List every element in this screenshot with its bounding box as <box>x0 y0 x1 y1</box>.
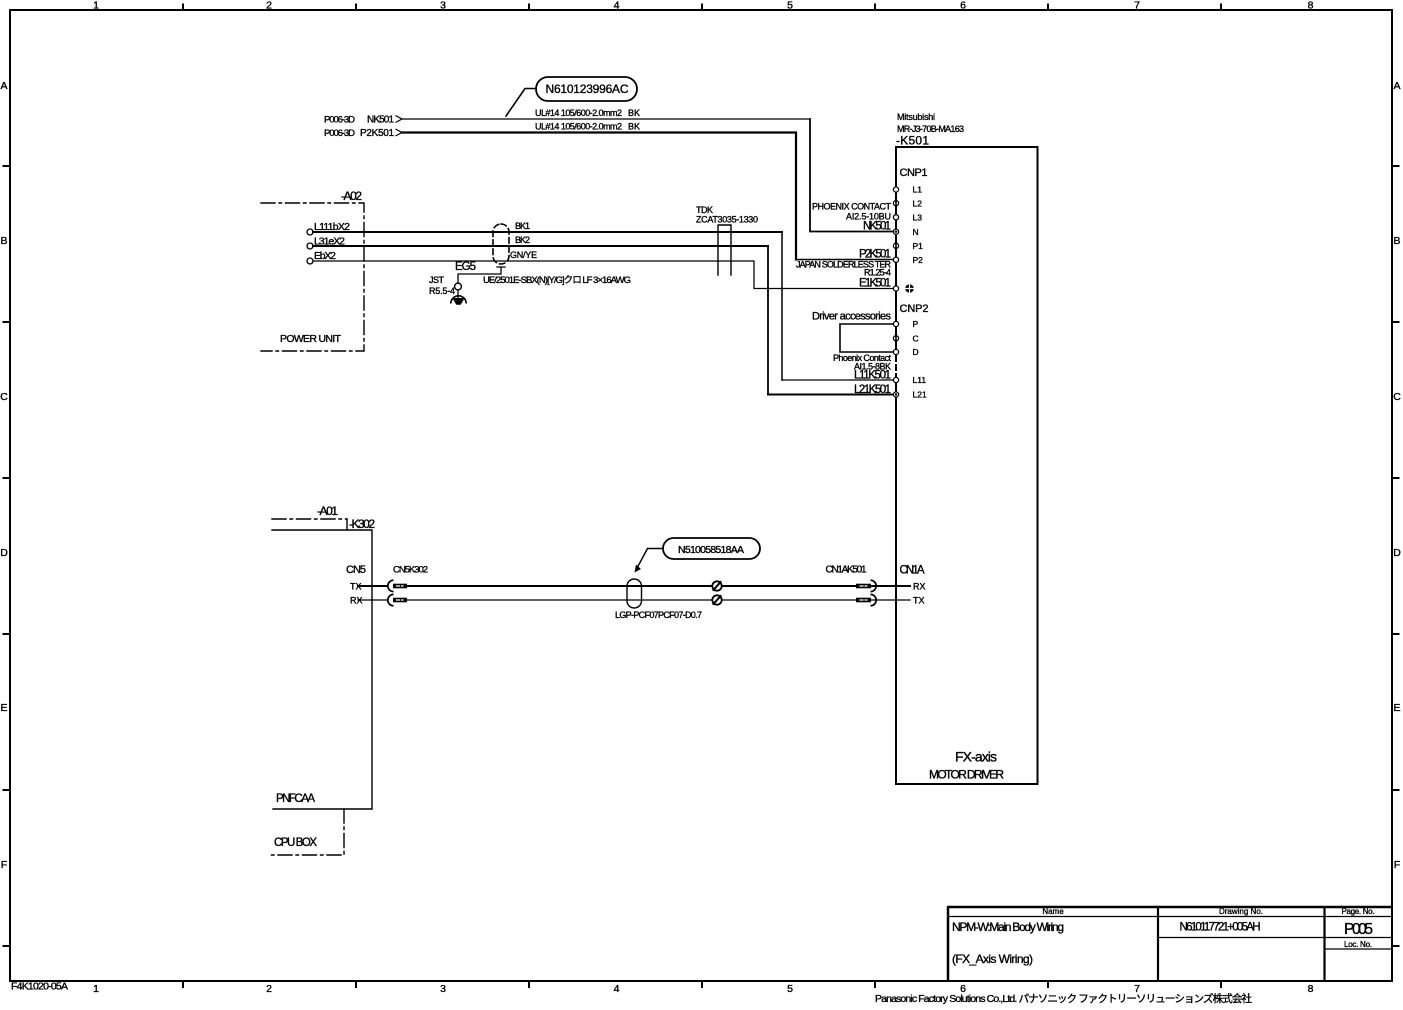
svg-text:8: 8 <box>1308 0 1314 12</box>
svg-text:N610117721+005AH: N610117721+005AH <box>1180 922 1261 934</box>
svg-text:EbX2: EbX2 <box>314 250 336 262</box>
svg-text:L11: L11 <box>913 375 927 385</box>
svg-text:P2: P2 <box>913 255 924 265</box>
svg-text:BK2: BK2 <box>515 235 530 245</box>
svg-text:Mitsubishi: Mitsubishi <box>897 112 935 122</box>
svg-text:3: 3 <box>440 983 446 995</box>
svg-text:L21K501: L21K501 <box>854 384 891 396</box>
svg-text:2: 2 <box>266 983 272 995</box>
svg-text:N610123996AC: N610123996AC <box>546 82 629 96</box>
cable capsule LGP <box>627 579 642 608</box>
svg-text:BK: BK <box>628 108 640 118</box>
svg-text:NPM-W:Main Body Wiring: NPM-W:Main Body Wiring <box>952 920 1064 934</box>
connector CN5K302 TX contact <box>388 580 394 591</box>
svg-text:ZCAT3035-1330: ZCAT3035-1330 <box>696 215 758 225</box>
svg-text:Panasonic Factory Solutions Co: Panasonic Factory Solutions Co.,Ltd. パナソ… <box>875 992 1253 1005</box>
svg-text:Drawing No.: Drawing No. <box>1219 907 1263 916</box>
svg-text:L1: L1 <box>913 185 923 195</box>
svg-text:C: C <box>913 334 919 344</box>
svg-text:B: B <box>0 235 7 247</box>
pin L1 <box>893 187 898 192</box>
svg-text:MOTOR DRIVER: MOTOR DRIVER <box>929 768 1004 782</box>
wire GN/YE EbX2 to E1K501 <box>313 261 894 289</box>
pin P2 <box>893 257 898 262</box>
svg-text:-A01: -A01 <box>317 504 338 518</box>
PNFCAA K302 outline <box>272 530 372 809</box>
svg-text:6: 6 <box>960 0 966 12</box>
svg-text:L2: L2 <box>913 198 923 208</box>
pin L11 <box>893 377 898 382</box>
svg-text:8: 8 <box>1308 983 1314 995</box>
svg-text:FX-axis: FX-axis <box>955 749 997 765</box>
svg-text:N510058518AA: N510058518AA <box>678 544 744 556</box>
svg-text:P006-3D: P006-3D <box>324 115 355 126</box>
callout N510058518AA <box>635 538 761 573</box>
svg-text:CNP2: CNP2 <box>900 303 929 315</box>
connector CN1AK501 TX contact <box>856 598 871 603</box>
protective earth symbol at E1 <box>905 284 914 293</box>
connector CN5K302 RX contact <box>388 594 394 605</box>
arrow NK501 <box>396 116 402 122</box>
svg-text:EG5: EG5 <box>455 261 476 273</box>
dashed segment D to L11 <box>895 356 897 377</box>
power unit boundary A02 (dash-dot) <box>261 203 364 351</box>
svg-text:UL#14 105/600-2.0mm2: UL#14 105/600-2.0mm2 <box>535 122 622 132</box>
svg-text:-K501: -K501 <box>896 134 929 148</box>
JST terminal circle <box>455 283 462 290</box>
svg-text:RX: RX <box>913 582 926 592</box>
svg-text:(FX_Axis Wiring): (FX_Axis Wiring) <box>952 952 1033 966</box>
svg-text:POWER UNIT: POWER UNIT <box>280 333 342 345</box>
svg-text:Page. No.: Page. No. <box>1342 907 1375 916</box>
wire NK501 top <box>402 118 810 120</box>
svg-text:MR-J3-70B-MA163: MR-J3-70B-MA163 <box>897 124 964 134</box>
svg-text:GN/YE: GN/YE <box>510 250 537 260</box>
shield drain Y <box>458 267 505 283</box>
svg-text:D: D <box>1393 547 1401 559</box>
svg-text:P: P <box>913 319 919 329</box>
pin N <box>893 229 898 234</box>
svg-text:1: 1 <box>93 983 99 995</box>
svg-text:P005: P005 <box>1344 921 1373 938</box>
terminal L31eX2 <box>307 243 313 249</box>
svg-text:E: E <box>0 702 7 714</box>
svg-text:D: D <box>913 347 919 357</box>
svg-text:C: C <box>1393 391 1401 403</box>
svg-text:L11K501: L11K501 <box>854 370 891 382</box>
connector CN1AK501 RX contact <box>856 584 871 589</box>
svg-text:P1: P1 <box>913 241 924 251</box>
TITLEBLOCK <box>947 907 1392 981</box>
CPU BOX boundary (dash-dot) <box>269 809 344 855</box>
motor driver box K501 <box>896 147 1038 784</box>
twist symbol bottom <box>712 595 721 604</box>
svg-text:N: N <box>913 227 919 237</box>
svg-text:CN1AK501: CN1AK501 <box>826 565 867 576</box>
svg-text:E1K501: E1K501 <box>859 278 891 290</box>
pin C <box>893 336 898 341</box>
svg-text:JST: JST <box>429 275 445 285</box>
pin L3 <box>893 215 898 220</box>
svg-text:R5.5-4: R5.5-4 <box>429 286 455 296</box>
jumper P to D <box>840 324 894 352</box>
wire TX (CN5 to CN1A RX) <box>358 585 387 587</box>
wire RX (CN5 to CN1A TX) <box>358 599 387 601</box>
pin E1 <box>893 286 898 291</box>
svg-text:E: E <box>1393 702 1400 714</box>
svg-text:LGP-PCF07PCF07-D0.7: LGP-PCF07PCF07-D0.7 <box>615 610 702 620</box>
svg-text:BK1: BK1 <box>515 221 530 231</box>
svg-text:CNP1: CNP1 <box>900 167 928 179</box>
svg-text:L31eX2: L31eX2 <box>314 236 345 248</box>
twist symbol top <box>712 581 721 590</box>
svg-text:R1.25-4: R1.25-4 <box>864 268 891 278</box>
pin P1 <box>893 243 898 248</box>
TDK ferrite ZCAT3035-1330 <box>718 225 731 275</box>
svg-text:UE/2501E-SBX(N)[Y/G]クロ LF 3×16: UE/2501E-SBX(N)[Y/G]クロ LF 3×16AWG <box>483 275 631 286</box>
svg-text:NK501: NK501 <box>863 221 891 233</box>
svg-text:TDK: TDK <box>696 205 713 215</box>
svg-text:3: 3 <box>440 0 446 12</box>
svg-text:BK: BK <box>628 122 640 132</box>
svg-text:L3: L3 <box>913 213 923 223</box>
pin P <box>893 321 898 326</box>
svg-text:CN5K302: CN5K302 <box>393 565 428 576</box>
callout N610123996AC <box>506 77 637 116</box>
svg-text:TX: TX <box>350 582 362 592</box>
A01 boundary (dash-dot) <box>272 518 347 520</box>
pin L21 <box>893 392 898 397</box>
svg-text:L21: L21 <box>913 390 927 400</box>
earth ground EG5 <box>457 290 459 298</box>
svg-text:A: A <box>1393 80 1400 92</box>
svg-text:4: 4 <box>614 983 620 995</box>
svg-text:5: 5 <box>787 0 793 12</box>
svg-text:UL#14 105/600-2.0mm2: UL#14 105/600-2.0mm2 <box>535 108 622 118</box>
svg-text:Driver accessories: Driver accessories <box>812 311 892 323</box>
svg-text:RX: RX <box>350 596 363 606</box>
svg-text:NK501: NK501 <box>367 115 394 126</box>
svg-text:2: 2 <box>266 0 272 12</box>
svg-text:P2K501: P2K501 <box>360 128 394 139</box>
svg-text:TX: TX <box>913 596 925 606</box>
svg-text:CN1A: CN1A <box>900 565 925 577</box>
wire P2K501 top <box>402 133 796 260</box>
svg-text:5: 5 <box>787 983 793 995</box>
svg-text:D: D <box>0 547 8 559</box>
svg-text:7: 7 <box>1134 0 1140 12</box>
svg-text:P006-3D: P006-3D <box>324 128 355 139</box>
cable shield capsule (dashed) <box>493 224 509 264</box>
arrow P2K501 <box>396 129 402 135</box>
svg-text:Name: Name <box>1042 907 1064 916</box>
pin L2 <box>893 201 898 206</box>
svg-text:1: 1 <box>93 0 99 12</box>
svg-text:4: 4 <box>614 0 620 12</box>
wire BK1 L111bX2 to L11 <box>313 231 782 233</box>
svg-text:F: F <box>1 859 7 871</box>
svg-text:C: C <box>0 391 8 403</box>
pin D <box>893 349 898 354</box>
svg-text:L111bX2: L111bX2 <box>314 221 350 233</box>
terminal EbX2 <box>307 258 313 264</box>
svg-text:A: A <box>0 80 7 92</box>
svg-text:F4K1020-05A: F4K1020-05A <box>11 981 68 993</box>
svg-text:CN5: CN5 <box>346 564 366 576</box>
svg-text:PNFCAA: PNFCAA <box>276 793 315 805</box>
svg-text:-A02: -A02 <box>341 189 362 203</box>
svg-text:PHOENIX CONTACT: PHOENIX CONTACT <box>812 202 892 212</box>
svg-text:Loc. No.: Loc. No. <box>1344 940 1372 949</box>
terminal L111bX2 <box>307 229 313 235</box>
svg-text:F: F <box>1394 859 1400 871</box>
svg-text:B: B <box>1393 235 1400 247</box>
wire BK2 L31eX2 to L21 <box>313 245 768 247</box>
svg-text:CPU BOX: CPU BOX <box>274 837 317 849</box>
svg-text:-K302: -K302 <box>349 517 375 531</box>
